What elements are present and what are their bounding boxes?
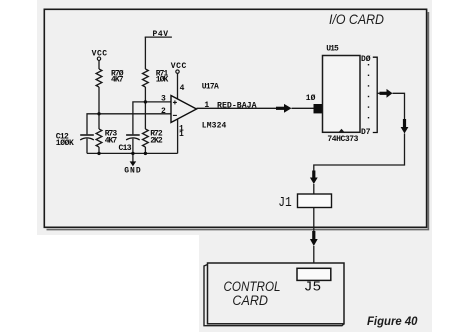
white cutout bottom-left bbox=[37, 235, 199, 332]
wire C13 to rail bbox=[132, 139, 134, 154]
connector J5 bbox=[297, 268, 331, 295]
wire pin 4 bbox=[177, 74, 179, 100]
junction pin3 node bbox=[144, 100, 147, 103]
wire pin3 (non-inverting input) bbox=[133, 102, 171, 134]
wire into J5 bbox=[313, 246, 315, 268]
arrow to J5 bbox=[310, 231, 318, 246]
resistor R71 bbox=[143, 69, 169, 87]
wire pin2 (inverting input) bbox=[87, 114, 171, 135]
resistor R72 bbox=[143, 129, 163, 147]
svg-text:DØ: DØ bbox=[361, 55, 371, 64]
wire R71 to pin3 node and down to R72 bbox=[144, 87, 146, 129]
wire R70 to rail (through pin2 node) bbox=[98, 87, 100, 129]
svg-text:C13: C13 bbox=[119, 144, 132, 153]
svg-text:GND: GND bbox=[124, 167, 141, 176]
net label P4V bbox=[145, 30, 172, 39]
svg-text:CARD: CARD bbox=[232, 293, 268, 308]
bus wire to corner bbox=[393, 93, 405, 119]
wire C12 to rail bbox=[86, 139, 88, 154]
svg-text:CONTROL: CONTROL bbox=[224, 279, 281, 294]
bus arrow down bbox=[401, 119, 409, 134]
junction rail R73 bbox=[97, 152, 100, 155]
wire VCC1 to R70 bbox=[98, 61, 100, 69]
svg-text:VCC: VCC bbox=[171, 62, 187, 71]
svg-text:2: 2 bbox=[161, 107, 166, 116]
latch U15 bbox=[323, 56, 361, 133]
wire R72 to rail bbox=[144, 147, 146, 153]
junction rail R72 bbox=[144, 152, 147, 155]
VCC terminal 2 bbox=[171, 62, 187, 74]
svg-text:Figure 40: Figure 40 bbox=[367, 314, 418, 328]
svg-text:4K7: 4K7 bbox=[111, 76, 124, 85]
wire R73 to rail bbox=[98, 147, 100, 153]
wire arrow to pin10 pad bbox=[292, 107, 315, 109]
ground bbox=[124, 153, 141, 175]
svg-text:4K7: 4K7 bbox=[105, 136, 118, 145]
svg-text:U17A: U17A bbox=[202, 82, 219, 91]
svg-text:2K2: 2K2 bbox=[150, 136, 163, 145]
pin 11 label bbox=[179, 125, 184, 140]
dotted bus pins bbox=[368, 64, 369, 118]
capacitor C12 bbox=[56, 132, 94, 148]
capacitor C13 bbox=[119, 135, 140, 153]
svg-text:74HC373: 74HC373 bbox=[327, 135, 358, 144]
svg-text:LM324: LM324 bbox=[202, 121, 227, 130]
svg-text:U15: U15 bbox=[326, 44, 339, 53]
wire P4V to R71 bbox=[144, 37, 146, 69]
bus wire from bracket bbox=[377, 92, 380, 94]
pin 10 bus pad bbox=[314, 104, 324, 113]
bus bracket bbox=[373, 57, 377, 132]
op-amp U17A bbox=[171, 96, 197, 123]
control card box bbox=[204, 263, 344, 326]
svg-text:J5: J5 bbox=[304, 281, 321, 296]
arrow into J1 bbox=[310, 171, 318, 185]
pin 11 wire bbox=[177, 119, 179, 153]
svg-text:J1: J1 bbox=[278, 195, 292, 211]
resistor R73 bbox=[96, 129, 117, 147]
ground rail bbox=[87, 152, 178, 154]
resistor R70 bbox=[96, 69, 124, 87]
junction rail C13 bbox=[131, 152, 134, 155]
wire J1 down bbox=[313, 208, 315, 232]
svg-text:1Ø: 1Ø bbox=[306, 94, 316, 103]
svg-text:1: 1 bbox=[179, 130, 184, 139]
bus arrow right bbox=[380, 89, 393, 98]
I/O card box bbox=[44, 9, 428, 229]
wire arrow to J1 bbox=[313, 184, 315, 194]
VCC terminal 1 bbox=[92, 49, 108, 60]
signal arrow to U15 bbox=[276, 104, 292, 113]
svg-text:4: 4 bbox=[180, 84, 185, 93]
svg-text:I/O CARD: I/O CARD bbox=[329, 11, 384, 27]
bus wire down and left to J1 bbox=[314, 134, 405, 171]
connector J1 bbox=[278, 194, 331, 211]
wire op-amp output bbox=[197, 107, 277, 109]
svg-text:3: 3 bbox=[161, 95, 166, 104]
junction pin2 node bbox=[97, 112, 100, 115]
svg-text:1ØØK: 1ØØK bbox=[56, 139, 74, 148]
svg-text:D7: D7 bbox=[361, 128, 371, 137]
svg-text:1ØK: 1ØK bbox=[156, 76, 169, 85]
